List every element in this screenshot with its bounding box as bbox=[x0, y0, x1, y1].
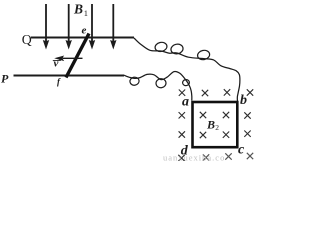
square loop abcd bbox=[193, 102, 238, 147]
flux mark row4 col2 bbox=[203, 154, 209, 160]
flux mark row4 col3 bbox=[225, 153, 231, 159]
flux mark row4 col4 bbox=[247, 153, 253, 159]
svg-text:b: b bbox=[240, 93, 247, 108]
flux mark row3 col4 bbox=[244, 131, 250, 137]
svg-text:e: e bbox=[82, 24, 87, 36]
wire upper (Q rail to corner b) bbox=[134, 38, 240, 101]
flux mark row1 col4 bbox=[247, 89, 253, 95]
svg-text:B: B bbox=[73, 1, 83, 16]
flux mark row1 col2 bbox=[202, 90, 208, 96]
flux mark row3 col1 bbox=[179, 131, 185, 137]
flux mark row2 col1 bbox=[179, 112, 185, 118]
svg-text:c: c bbox=[238, 143, 245, 158]
rod ef bbox=[66, 34, 89, 78]
wire upper coil curl 1 bbox=[154, 41, 168, 52]
rail P bbox=[14, 75, 125, 77]
wire lower coil curl 1 bbox=[129, 76, 139, 85]
wire lower coil curl 3 bbox=[182, 79, 190, 86]
wire upper coil curl 3 bbox=[197, 49, 211, 61]
svg-text:Q: Q bbox=[22, 32, 32, 47]
flux mark row3 col3 bbox=[223, 132, 229, 138]
flux mark row3 col2 bbox=[200, 132, 206, 138]
svg-text:1: 1 bbox=[84, 8, 88, 18]
svg-text:2: 2 bbox=[215, 123, 219, 132]
svg-text:a: a bbox=[182, 95, 189, 110]
wire lower (P rail to corner a) bbox=[124, 71, 192, 100]
flux mark row2 col3 bbox=[223, 112, 229, 118]
rail Q bbox=[31, 37, 134, 39]
field B1 arrow 4 bbox=[110, 4, 116, 50]
svg-text:v: v bbox=[54, 57, 59, 69]
wire upper coil curl 2 bbox=[170, 43, 184, 55]
field B1 arrow 2 bbox=[66, 4, 72, 50]
flux mark row1 col1 bbox=[179, 90, 185, 96]
flux mark row2 col2 bbox=[200, 112, 206, 118]
svg-text:uanxuexiba.co: uanxuexiba.co bbox=[163, 153, 225, 162]
svg-text:B: B bbox=[206, 117, 215, 131]
flux mark row1 col3 bbox=[224, 89, 230, 95]
velocity arrow bbox=[54, 56, 82, 62]
flux mark row4 col1 bbox=[178, 155, 184, 161]
field B1 arrow 3 bbox=[89, 4, 95, 50]
svg-text:P: P bbox=[1, 72, 9, 86]
wire lower coil curl 2 bbox=[155, 78, 166, 89]
field B1 arrow 1 bbox=[43, 4, 49, 50]
flux mark row2 col4 bbox=[244, 112, 250, 118]
